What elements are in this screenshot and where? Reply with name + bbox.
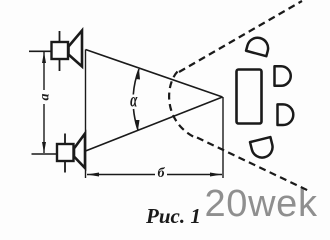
chair bottom (arch, flat top, tilted) [250, 137, 275, 160]
angle alpha arrow bottom [136, 120, 140, 130]
dimension b: arrow left [87, 173, 99, 177]
loudspeaker top: box [52, 42, 69, 59]
triangle: top line to apex [86, 50, 223, 98]
dashed boundary: arc around apex [169, 72, 196, 139]
loudspeaker bottom: axis stub above [64, 134, 66, 145]
dimension b: line left segment [87, 174, 155, 176]
dimension a: vertical line upper part [43, 52, 45, 90]
loudspeaker top: axis stub below [59, 59, 61, 71]
apex vertical drop line [222, 97, 224, 178]
loudspeaker bottom: box [57, 144, 74, 161]
dimension a: arrow up [42, 52, 46, 63]
angle alpha arc lower segment [134, 109, 139, 130]
dimension a: vertical line lower part [43, 104, 45, 153]
dimension a: top extension bar [29, 50, 51, 52]
dashed boundary: upper line [179, 1, 302, 72]
label alpha [130, 89, 138, 112]
svg-text:б: б [158, 166, 166, 181]
angle alpha arrow top [136, 69, 140, 80]
svg-text:20wek: 20wek [205, 183, 318, 225]
svg-text:Рис. 1: Рис. 1 [145, 204, 201, 227]
loudspeaker top: axis stub above [59, 31, 61, 42]
svg-text:a: a [38, 94, 53, 101]
loudspeaker bottom: horn [74, 134, 85, 169]
dimension a: arrow down [42, 142, 46, 153]
dimension b: arrow right [210, 173, 222, 177]
angle alpha arc upper segment [133, 69, 139, 95]
triangle: left vertical line [85, 50, 87, 179]
table [237, 70, 262, 124]
chair right upper (D) [275, 66, 291, 86]
loudspeaker top: horn [69, 31, 83, 67]
dimension b: line right segment [167, 174, 222, 176]
dimension a: bottom extension bar [32, 153, 58, 155]
chair right lower (D) [278, 104, 294, 125]
chair top (arch, flat bottom, tilted) [246, 35, 270, 56]
triangle: bottom line to apex [86, 97, 223, 151]
svg-text:α: α [130, 89, 138, 112]
loudspeaker bottom: axis stub below [64, 161, 66, 173]
dashed boundary: lower line [197, 138, 308, 191]
